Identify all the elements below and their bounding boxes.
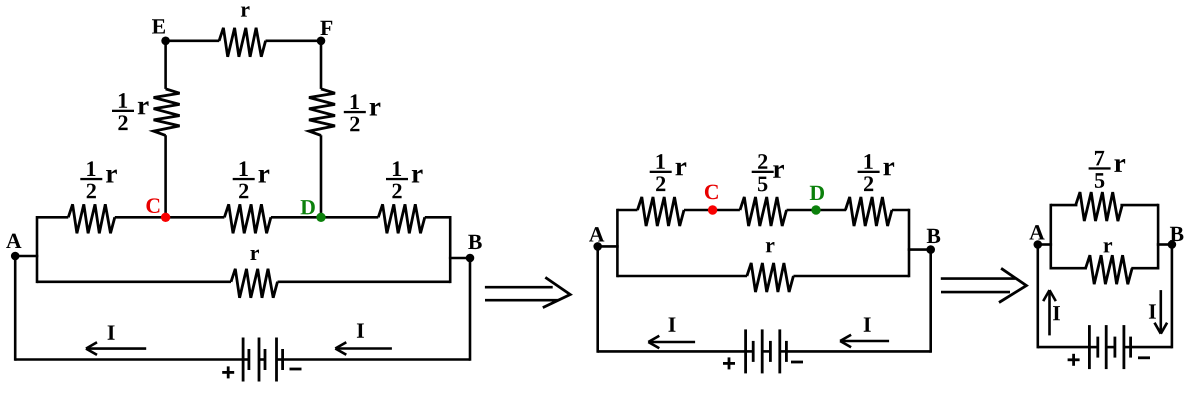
- resistor 1/2 r (F-D): [309, 89, 335, 135]
- label F: [320, 21, 332, 35]
- label r (lower branch, right circuit): [1103, 242, 1112, 252]
- node E: [161, 37, 170, 46]
- node A (right circuit): [1034, 240, 1043, 249]
- current arrow I down (right circuit): [1160, 290, 1163, 333]
- label r (top resistor): [241, 6, 250, 16]
- current arrow I (middle, bottom-left): [649, 341, 695, 344]
- label I (middle circuit, right arrow): [864, 317, 871, 331]
- label B (right circuit): [1170, 227, 1184, 241]
- label - (left battery): [290, 368, 302, 371]
- node D (middle circuit): [811, 205, 820, 214]
- wire r-branch right segment: [278, 280, 451, 283]
- label 1/2 r (A-C resistor, middle circuit): [650, 171, 672, 173]
- resistor 1/2 r (left of C): [68, 204, 115, 233]
- wire A stub: [15, 255, 38, 258]
- wire top row left segment (right circuit): [1051, 204, 1078, 207]
- node B: [466, 254, 475, 263]
- label I (right circuit, up arrow): [1053, 306, 1060, 320]
- resistor r (A-B branch): [231, 269, 278, 298]
- wire A stub (right circuit): [1038, 243, 1052, 246]
- wire middle row right segment: [425, 216, 450, 219]
- wire A down: [14, 256, 17, 361]
- wire battery row left: [15, 358, 243, 361]
- node D: [316, 213, 325, 222]
- wire top row left segment (middle circuit): [617, 209, 637, 212]
- wire B down (right circuit): [1171, 245, 1174, 349]
- label 1/2 r (F-D resistor): [344, 111, 366, 113]
- label 1/2 r (E-C resistor): [112, 110, 134, 112]
- node A: [11, 252, 20, 261]
- resistor 1/2 r (C-D): [224, 204, 271, 233]
- label - (middle battery): [791, 361, 803, 364]
- node C: [161, 213, 170, 222]
- label + (middle battery): [723, 362, 735, 365]
- wire right vertical (middle circuit): [908, 209, 911, 278]
- node B (right circuit): [1168, 240, 1177, 249]
- resistor 1/2 r (E-C): [154, 89, 180, 135]
- node A (middle circuit): [593, 242, 602, 251]
- label 1/2 r (right row resistor): [386, 178, 408, 180]
- current arrow I (middle, bottom-right): [841, 340, 889, 343]
- label C: [146, 198, 159, 213]
- label 2/5 r (C-D resistor, middle circuit): [752, 171, 774, 173]
- label A: [6, 234, 21, 248]
- wire C segment (middle circuit): [684, 209, 740, 212]
- wire A down (middle circuit): [596, 246, 599, 352]
- wire r-branch left (right circuit): [1051, 267, 1087, 270]
- wire A down (right circuit): [1037, 245, 1040, 349]
- label A (middle circuit): [589, 227, 604, 241]
- node C (middle circuit): [708, 205, 717, 214]
- wire B down: [469, 258, 472, 361]
- wire A stub (middle circuit): [598, 245, 619, 248]
- label I (right circuit, down arrow): [1149, 304, 1156, 318]
- label B: [468, 235, 482, 249]
- label r (A-B branch, middle circuit): [766, 242, 775, 252]
- wire battery row left (middle circuit): [598, 350, 746, 353]
- wire middle row D segment: [271, 216, 378, 219]
- wire top row right segment (right circuit): [1120, 204, 1158, 207]
- wire middle row C segment: [115, 216, 225, 219]
- label I (middle circuit, left arrow): [669, 317, 676, 331]
- wire E-F top: [166, 39, 220, 42]
- resistor 7/5 r (right circuit): [1076, 192, 1123, 221]
- label 7/5 r (right circuit): [1089, 167, 1111, 169]
- wire B stub (middle circuit): [908, 248, 931, 251]
- resistor 2/5 r (C-D, middle circuit): [740, 197, 787, 226]
- wire left vertical (middle circuit): [616, 209, 619, 278]
- wire F-D vertical: [320, 41, 323, 89]
- wire battery row right (middle circuit): [786, 350, 930, 353]
- current arrow I (left, bottom-right): [336, 347, 392, 350]
- wire battery row right (right circuit): [1131, 346, 1172, 349]
- wire E-C vertical: [164, 41, 167, 89]
- resistor 1/2 r (A-C, middle circuit): [638, 197, 685, 226]
- label B (middle circuit): [927, 229, 941, 243]
- label r (A-B branch): [250, 250, 259, 260]
- wire r-branch left (middle circuit): [617, 275, 747, 278]
- label + (left battery): [222, 371, 234, 374]
- resistor 1/2 r (D-B, middle circuit): [845, 197, 892, 226]
- wire left vertical (right circuit): [1050, 204, 1053, 270]
- label 1/2 r (middle row resistor): [233, 178, 255, 180]
- resistor 1/2 r (right of D): [378, 204, 425, 233]
- resistor r (A-B branch, middle circuit): [747, 263, 794, 292]
- label D (middle circuit): [810, 186, 824, 200]
- wire left vertical (row to r-branch): [36, 216, 39, 283]
- wire battery row left (right circuit): [1038, 346, 1090, 349]
- battery (middle circuit): [744, 329, 747, 373]
- current arrow I up (right circuit): [1048, 291, 1051, 335]
- wire battery row right: [283, 358, 470, 361]
- label E: [152, 19, 165, 33]
- wire middle row left segment: [37, 216, 68, 219]
- battery (right circuit): [1088, 325, 1091, 369]
- wire D segment (middle circuit): [787, 209, 847, 212]
- label 1/2 r (D-B resistor, middle circuit): [858, 171, 880, 173]
- implication arrow 2: [941, 277, 1016, 280]
- wire right vertical (right circuit): [1157, 204, 1160, 270]
- battery (left circuit): [242, 338, 245, 382]
- wire top row right segment (middle circuit): [892, 209, 909, 212]
- label C (middle circuit): [705, 185, 718, 200]
- node B (middle circuit): [926, 245, 935, 254]
- implication arrow 1: [485, 286, 553, 289]
- wire r-branch right (right circuit): [1131, 267, 1158, 270]
- wire r-branch right (middle circuit): [793, 275, 909, 278]
- current arrow I (left, bottom-left): [87, 347, 146, 350]
- label - (right battery): [1138, 356, 1150, 359]
- wire r-branch left segment: [37, 280, 231, 283]
- resistor r (E-F): [219, 28, 266, 57]
- wire right vertical (row to r-branch): [449, 216, 452, 283]
- label D: [301, 200, 315, 214]
- wire B stub: [449, 257, 470, 260]
- label + (right battery): [1068, 358, 1080, 361]
- wire B stub (right circuit): [1157, 243, 1172, 246]
- node F: [317, 37, 326, 46]
- label 1/2 r (left row resistor): [80, 178, 102, 180]
- resistor r (lower branch, right circuit): [1086, 255, 1133, 284]
- label I (left circuit, left arrow): [108, 325, 115, 339]
- label I (left circuit, right arrow): [357, 323, 364, 337]
- label A (right circuit): [1029, 225, 1044, 239]
- wire B down (middle circuit): [929, 250, 932, 353]
